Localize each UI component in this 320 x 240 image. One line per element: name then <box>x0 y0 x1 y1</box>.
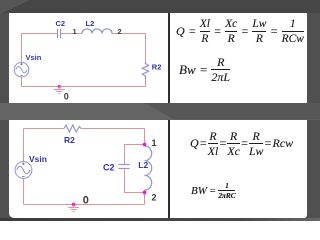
background bottom strip <box>0 218 320 222</box>
source Vsin symbol <box>14 62 29 77</box>
wire bottom <box>22 86 146 88</box>
svg-text:1: 1 <box>152 138 157 148</box>
svg-text:0: 0 <box>64 92 69 102</box>
wire bottom <box>24 204 145 206</box>
wire right vertical (node 2 to bottom corner) <box>144 190 146 205</box>
panel divider vertical line (bottom row) <box>168 120 170 218</box>
svg-text:2: 2 <box>118 27 122 36</box>
background middle band dark diagonal part <box>0 103 320 120</box>
background middle band <box>0 103 320 120</box>
svg-text:L2: L2 <box>138 160 148 170</box>
wire left vertical <box>21 34 23 87</box>
svg-text:Vsin: Vsin <box>29 154 47 164</box>
wire C2 branch top <box>125 145 145 165</box>
ground symbol <box>54 87 65 94</box>
source Vsin symbol <box>15 162 32 179</box>
svg-text:R2: R2 <box>152 63 162 72</box>
wire right vertical (top) <box>145 34 147 63</box>
ground junction dot <box>58 85 61 88</box>
svg-text:C2: C2 <box>103 162 115 172</box>
equation Q parallel (bottom-right) <box>190 131 293 156</box>
node 2 junction dot <box>143 191 147 195</box>
wire C2 branch bottom <box>125 169 145 193</box>
wire left vertical <box>23 129 25 205</box>
svg-text:Vsin: Vsin <box>26 53 42 62</box>
inductor L2 coil <box>82 29 112 34</box>
wire top (left segment to C2) <box>22 33 57 35</box>
inductor L2 coil <box>145 146 152 190</box>
panel divider vertical line (top row) <box>168 13 170 103</box>
svg-text:R2: R2 <box>64 135 75 145</box>
wire top (R2 to right corner) <box>81 128 145 130</box>
equation BW parallel (bottom-right) <box>191 183 235 198</box>
capacitor C2 plates <box>57 29 60 39</box>
resistor R2 zigzag <box>142 62 148 79</box>
wire top (C2 to L2) <box>61 33 82 35</box>
ground junction dot <box>72 203 76 207</box>
svg-text:0: 0 <box>83 195 89 207</box>
wire right vertical (top stub to node 1) <box>144 129 146 147</box>
wire right vertical (bottom) <box>145 79 147 87</box>
ground symbol <box>68 205 79 212</box>
wire top (left segment to R2) <box>24 128 65 130</box>
node 1 junction dot <box>143 143 147 147</box>
capacitor C2 plates <box>118 165 129 169</box>
svg-text:C2: C2 <box>56 19 66 28</box>
svg-text:2: 2 <box>152 192 157 202</box>
background top strip <box>0 0 320 13</box>
background corner highlight triangle <box>0 0 30 14</box>
equation Q series (top-right) <box>176 18 304 46</box>
svg-text:L2: L2 <box>86 19 95 28</box>
white slide panels <box>9 13 307 218</box>
equation Bw series (top-right) <box>179 56 230 84</box>
wire top (L2 to right corner) <box>112 33 146 35</box>
resistor R2 zigzag <box>64 125 81 132</box>
svg-text:1: 1 <box>73 27 77 36</box>
